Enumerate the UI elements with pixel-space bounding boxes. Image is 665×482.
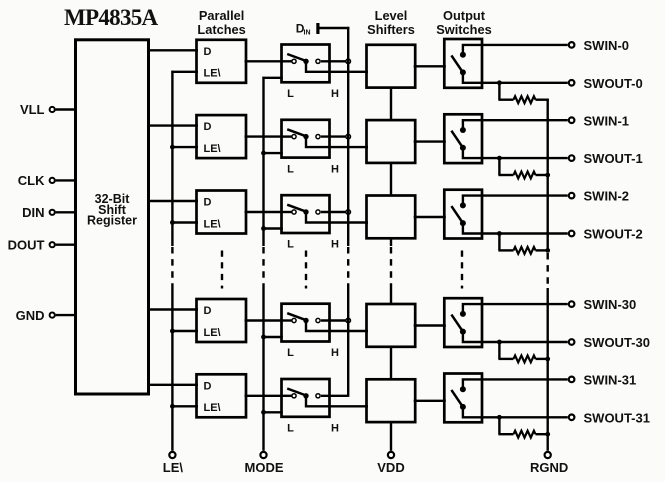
junction MODE bus row 30 bbox=[261, 335, 266, 340]
parallel latch 2 box bbox=[197, 191, 247, 234]
mux 31 pole drop wire bbox=[306, 396, 368, 407]
svg-text:L: L bbox=[287, 423, 294, 435]
output switch 30 arm bbox=[451, 315, 463, 332]
terminal GND pin circle bbox=[50, 313, 55, 318]
output switch 1 bottom contact bbox=[460, 145, 466, 151]
svg-text:SWOUT-31: SWOUT-31 bbox=[584, 410, 650, 425]
mux 2 pole bbox=[303, 209, 308, 214]
output switch 30 bottom contact bbox=[460, 329, 466, 335]
svg-text:SWIN-2: SWIN-2 bbox=[584, 189, 630, 204]
wire LE bus corner to latch 0 LE bbox=[171, 71, 198, 73]
svg-text:L: L bbox=[287, 163, 294, 175]
mux column dashed continuation bbox=[305, 251, 307, 289]
terminal SWOUT-2 circle bbox=[569, 231, 575, 237]
terminal LE\ circle bbox=[169, 452, 175, 458]
wire MODE bus to mux 2 bbox=[264, 227, 283, 229]
wire LE bus to latch 1 LE bbox=[172, 146, 198, 148]
svg-text:SWIN-31: SWIN-31 bbox=[584, 373, 637, 388]
terminal SWIN-31 circle bbox=[569, 377, 575, 383]
wire resistor R31 to RGND bus bbox=[536, 433, 549, 435]
DIN bus wire bbox=[347, 27, 349, 246]
LE bus wire bbox=[171, 71, 173, 246]
output switch 31 arm bbox=[451, 390, 463, 407]
terminal SWIN-0 circle bbox=[569, 42, 575, 48]
svg-text:LE\: LE\ bbox=[204, 218, 221, 230]
level shifter 31 box bbox=[367, 379, 416, 422]
junction MODE bus row 31 bbox=[261, 410, 266, 415]
mux 31 H contact bbox=[316, 394, 320, 398]
wire SWOUT-30 to resistor R30 bbox=[498, 342, 500, 359]
output switch 0 top contact bbox=[460, 52, 466, 58]
svg-text:SWIN-30: SWIN-30 bbox=[584, 297, 637, 312]
svg-text:CLK: CLK bbox=[18, 173, 45, 188]
output switch 2 arm bbox=[451, 206, 463, 223]
wire level shifter 2 to output switch bbox=[414, 216, 446, 218]
wire MODE bus to mux 1 bbox=[264, 152, 283, 154]
wire shift register Q2 to latch D bbox=[147, 200, 198, 202]
svg-text:Level: Level bbox=[375, 8, 408, 23]
svg-text:Register: Register bbox=[87, 214, 137, 228]
wire shift register Q0 to latch D bbox=[147, 49, 198, 51]
level shifter 0 box bbox=[367, 45, 416, 88]
svg-text:Switches: Switches bbox=[436, 22, 491, 37]
svg-text:D: D bbox=[204, 197, 212, 209]
output switch 30 top contact bbox=[460, 311, 466, 317]
svg-text:LE\: LE\ bbox=[163, 460, 184, 475]
terminal CLK pin circle bbox=[50, 178, 55, 183]
output switch 30 SWIN wire bbox=[463, 304, 568, 314]
svg-text:VDD: VDD bbox=[377, 460, 404, 475]
wire VLL to shift register bbox=[56, 108, 77, 110]
mux 31 pole bbox=[303, 393, 308, 398]
output switch 2 bottom contact bbox=[460, 220, 466, 226]
svg-text:SWOUT-1: SWOUT-1 bbox=[584, 151, 643, 166]
node DIN bus tap row 2 bbox=[346, 210, 351, 215]
mux 2 L contact wire bbox=[282, 211, 295, 213]
terminal SWIN-30 circle bbox=[569, 301, 575, 307]
terminal SWOUT-31 circle bbox=[569, 415, 575, 421]
shift register U1 box bbox=[76, 40, 149, 394]
mux 31 H wire to DIN bus bbox=[321, 395, 348, 397]
mode mux S2 box bbox=[282, 195, 330, 233]
mux 1 H wire to DIN bus bbox=[321, 135, 348, 137]
svg-text:H: H bbox=[331, 163, 339, 175]
DIN bus dashed continuation bbox=[347, 247, 349, 289]
VDD bus dashed continuation bbox=[390, 247, 392, 289]
mux 2 H wire to DIN bus bbox=[321, 211, 348, 213]
terminal DOUT pin circle bbox=[50, 242, 55, 247]
mux 2 H contact bbox=[316, 210, 320, 214]
wire SWOUT-1 to resistor R1 bbox=[498, 158, 500, 175]
VDD bus segment 31-terminal bbox=[390, 422, 392, 451]
svg-text:LE\: LE\ bbox=[204, 68, 221, 80]
mux 31 L contact bbox=[292, 394, 296, 398]
wire latch 0 output to mux bbox=[245, 60, 284, 62]
wire level shifter 31 to output switch bbox=[414, 400, 446, 402]
svg-text:VLL: VLL bbox=[20, 102, 45, 117]
wire SWOUT-31 to resistor R31 bbox=[498, 417, 500, 434]
wire level shifter 0 to output switch bbox=[414, 65, 446, 67]
parallel latch 0 box bbox=[197, 40, 247, 83]
node DIN bus tap row 0 bbox=[346, 59, 351, 64]
wire SWOUT-0 to resistor R0 bbox=[498, 83, 500, 100]
svg-text:SWIN-1: SWIN-1 bbox=[584, 113, 630, 128]
mux 2 arm bbox=[287, 205, 306, 212]
junction RGND bus row 31 bbox=[545, 432, 550, 437]
mux 2 pole drop wire bbox=[306, 212, 368, 223]
wire resistor R1 to RGND bus bbox=[536, 174, 549, 176]
mux 0 L contact wire bbox=[282, 60, 295, 62]
output switch 1 top contact bbox=[460, 127, 466, 133]
mux 30 L contact wire bbox=[282, 319, 295, 321]
svg-text:IN: IN bbox=[304, 30, 311, 37]
mux 1 pole bbox=[303, 134, 308, 139]
output switch 1 SWIN wire bbox=[463, 120, 568, 130]
VDD bus segment 1-2 bbox=[390, 163, 392, 196]
output switch 30 SWOUT wire bbox=[463, 332, 568, 342]
mode mux S0 box bbox=[282, 45, 330, 83]
mux 0 H contact bbox=[316, 59, 320, 63]
mux 30 L contact bbox=[292, 318, 296, 322]
wire LE bus to latch 30 LE bbox=[172, 330, 198, 332]
wire DOUT to shift register bbox=[56, 243, 77, 245]
wire LE bus to latch 31 LE bbox=[172, 405, 198, 407]
VDD bus segment 0-1 bbox=[390, 88, 392, 121]
mux 30 H contact bbox=[316, 318, 320, 322]
mux 1 pole drop wire bbox=[306, 137, 368, 148]
level shifter 1 box bbox=[367, 120, 416, 163]
output switch 31 SWOUT wire bbox=[463, 407, 568, 417]
svg-text:SWOUT-30: SWOUT-30 bbox=[584, 335, 650, 350]
svg-text:SWIN-0: SWIN-0 bbox=[584, 38, 630, 53]
output switch 2 top contact bbox=[460, 202, 466, 208]
LE bus dashed continuation bbox=[171, 247, 173, 289]
svg-text:SWOUT-0: SWOUT-0 bbox=[584, 76, 643, 91]
mux 30 pole bbox=[303, 318, 308, 323]
junction LE bus row 2 bbox=[170, 220, 175, 225]
svg-text:H: H bbox=[331, 423, 339, 435]
output switch 2 SWOUT wire bbox=[463, 223, 568, 233]
level shifter 30 box bbox=[367, 304, 416, 347]
svg-text:Shifters: Shifters bbox=[367, 22, 415, 37]
mux 30 H wire to DIN bus bbox=[321, 319, 348, 321]
output switch 0 arm bbox=[451, 55, 463, 72]
RGND bus dashed continuation bbox=[547, 253, 549, 288]
terminal SWOUT-0 circle bbox=[569, 80, 575, 86]
junction MODE bus row 2 bbox=[261, 226, 266, 231]
output switch 31 top contact bbox=[460, 386, 466, 392]
mux 0 pole bbox=[303, 59, 308, 64]
mux 2 L contact bbox=[292, 210, 296, 214]
VDD bus segment 2-gap bbox=[390, 238, 392, 246]
terminal SWIN-1 circle bbox=[569, 117, 575, 123]
resistor R1 bbox=[514, 172, 536, 179]
wire GND to shift register bbox=[56, 314, 77, 316]
junction SWOUT-30 resistor tap bbox=[497, 340, 502, 345]
terminal RGND circle bbox=[545, 452, 551, 458]
svg-text:LE\: LE\ bbox=[204, 402, 221, 414]
wire resistor R2 to RGND bus bbox=[536, 249, 549, 251]
parallel latch 1 box bbox=[197, 115, 247, 158]
mux 0 L contact bbox=[292, 59, 296, 63]
RGND bus wire bbox=[547, 99, 549, 252]
junction SWOUT-0 resistor tap bbox=[497, 80, 502, 85]
wire resistor R0 to RGND bus bbox=[536, 98, 549, 100]
output switch 1 box bbox=[444, 114, 482, 163]
svg-text:MP4835A: MP4835A bbox=[64, 5, 159, 30]
wire shift register Q1 to latch D bbox=[147, 124, 198, 126]
mux 1 arm bbox=[287, 129, 306, 136]
svg-text:H: H bbox=[331, 88, 339, 100]
switch column dashed continuation bbox=[461, 251, 463, 289]
resistor R31 bbox=[514, 431, 536, 438]
svg-text:GND: GND bbox=[16, 308, 45, 323]
node DIN bus tap row 30 bbox=[346, 318, 351, 323]
wire shift register Q31 to latch D bbox=[147, 384, 198, 386]
mux 31 L contact wire bbox=[282, 395, 295, 397]
svg-text:H: H bbox=[331, 239, 339, 251]
mux 1 H contact bbox=[316, 135, 320, 139]
MODE bus dashed continuation bbox=[262, 247, 264, 289]
terminal D_IN tick bbox=[316, 23, 319, 34]
VDD bus segment 30-31 bbox=[390, 347, 392, 380]
terminal VLL pin circle bbox=[50, 107, 55, 112]
mux 31 arm bbox=[287, 389, 306, 396]
junction MODE bus row 1 bbox=[261, 151, 266, 156]
wire level shifter 1 to output switch bbox=[414, 140, 446, 142]
output switch 2 SWIN wire bbox=[463, 196, 568, 206]
junction LE bus row 31 bbox=[170, 404, 175, 409]
latch column dashed continuation bbox=[221, 251, 223, 289]
svg-text:RGND: RGND bbox=[530, 460, 568, 475]
resistor R0 bbox=[514, 96, 536, 103]
mux 1 L contact bbox=[292, 135, 296, 139]
mode mux S31 box bbox=[282, 379, 330, 417]
mux 0 H wire to DIN bus bbox=[321, 60, 348, 62]
output switch 30 box bbox=[444, 298, 482, 347]
wire latch 2 output to mux bbox=[245, 211, 284, 213]
output switch 1 arm bbox=[451, 131, 463, 148]
wire MODE bus to mux 31 bbox=[264, 411, 283, 413]
terminal VDD circle bbox=[388, 452, 394, 458]
svg-text:SWOUT-2: SWOUT-2 bbox=[584, 227, 643, 242]
svg-text:L: L bbox=[287, 88, 294, 100]
junction RGND bus row 1 bbox=[545, 173, 550, 178]
svg-text:LE\: LE\ bbox=[204, 327, 221, 339]
junction SWOUT-31 resistor tap bbox=[497, 415, 502, 420]
parallel latch 30 box bbox=[197, 299, 247, 342]
wire latch 30 output to mux bbox=[245, 319, 284, 321]
svg-text:MODE: MODE bbox=[245, 460, 284, 475]
junction LE bus row 1 bbox=[170, 145, 175, 150]
wire resistor R30 to RGND bus bbox=[536, 358, 549, 360]
mux 30 arm bbox=[287, 313, 306, 320]
wire LE bus to latch 2 LE bbox=[172, 221, 198, 223]
mode mux S1 box bbox=[282, 120, 330, 158]
wire D_IN to DIN bus bbox=[320, 27, 350, 29]
output switch 0 SWOUT wire bbox=[463, 72, 568, 82]
svg-text:DIN: DIN bbox=[22, 205, 44, 220]
output switch 1 SWOUT wire bbox=[463, 148, 568, 158]
mux 30 pole drop wire bbox=[306, 321, 368, 332]
MODE bus wire bbox=[262, 77, 264, 246]
resistor R2 bbox=[514, 247, 536, 254]
junction SWOUT-1 resistor tap bbox=[497, 156, 502, 161]
junction SWOUT-2 resistor tap bbox=[497, 231, 502, 236]
terminal SWOUT-30 circle bbox=[569, 339, 575, 345]
svg-text:DOUT: DOUT bbox=[8, 237, 45, 252]
wire latch 1 output to mux bbox=[245, 135, 284, 137]
svg-text:Parallel: Parallel bbox=[199, 8, 245, 23]
mux 0 arm bbox=[287, 54, 306, 61]
output switch 2 box bbox=[444, 190, 482, 239]
terminal MODE circle bbox=[260, 452, 266, 458]
mux 0 pole drop wire bbox=[306, 61, 368, 72]
output switch 0 box bbox=[444, 39, 482, 88]
wire shift register Q30 to latch D bbox=[147, 308, 198, 310]
svg-text:D: D bbox=[204, 380, 212, 392]
terminal DIN pin circle bbox=[50, 210, 55, 215]
output switch 31 bottom contact bbox=[460, 404, 466, 410]
wire MODE bus to mux 30 bbox=[264, 336, 283, 338]
output switch 0 SWIN wire bbox=[463, 45, 568, 55]
wire latch 31 output to mux bbox=[245, 395, 284, 397]
junction RGND bus row 30 bbox=[545, 357, 550, 362]
output switch 0 bottom contact bbox=[460, 69, 466, 75]
wire MODE bus corner to mux 0 bbox=[262, 77, 282, 79]
wire SWOUT-2 to resistor R2 bbox=[498, 234, 500, 251]
level shifter 2 box bbox=[367, 196, 416, 239]
node DIN bus tap row 1 bbox=[346, 134, 351, 139]
svg-text:Latches: Latches bbox=[197, 22, 245, 37]
svg-text:D: D bbox=[204, 121, 212, 133]
mode mux S30 box bbox=[282, 304, 330, 342]
terminal SWIN-2 circle bbox=[569, 193, 575, 199]
svg-text:L: L bbox=[287, 239, 294, 251]
VDD bus segment gap-30 bbox=[390, 289, 392, 304]
svg-text:D: D bbox=[204, 305, 212, 317]
svg-text:Output: Output bbox=[443, 8, 486, 23]
output switch 31 SWIN wire bbox=[463, 379, 568, 389]
mux 1 L contact wire bbox=[282, 135, 295, 137]
output switch 31 box bbox=[444, 374, 482, 423]
svg-text:H: H bbox=[331, 347, 339, 359]
junction RGND bus row 2 bbox=[545, 248, 550, 253]
parallel latch 31 box bbox=[197, 374, 247, 417]
svg-text:L: L bbox=[287, 347, 294, 359]
wire level shifter 30 to output switch bbox=[414, 324, 446, 326]
svg-text:D: D bbox=[204, 46, 212, 58]
wire DIN to shift register bbox=[56, 211, 77, 213]
terminal SWOUT-1 circle bbox=[569, 155, 575, 161]
resistor R30 bbox=[514, 356, 536, 363]
wire CLK to shift register bbox=[56, 179, 77, 181]
junction LE bus row 30 bbox=[170, 329, 175, 334]
svg-text:LE\: LE\ bbox=[204, 143, 221, 155]
